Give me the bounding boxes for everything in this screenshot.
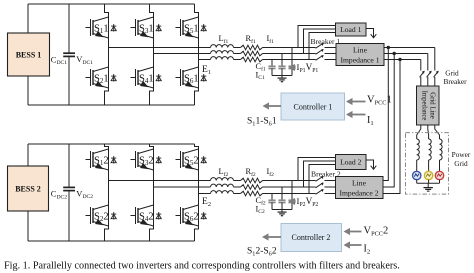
line impedance Z1 box (Line Impedance 1)	[336, 44, 384, 66]
inductor Lf2 phase c	[211, 191, 234, 194]
wire source phase c to neutral bus	[416, 180, 418, 184]
wire grid feeder phase c into grid line impedance	[420, 77, 422, 86]
wire BESS 1 negative terminal to DC- bus	[27, 76, 29, 105]
anti-parallel diode of S31	[156, 24, 161, 31]
AC source G2 phase b	[424, 171, 432, 179]
breaker 1 switch phase c	[316, 55, 324, 60]
wire grid feeder phase b vertical upper	[427, 54, 429, 71]
wire phase c tap to filter capacitor 1	[271, 194, 273, 201]
anti-parallel diode of S21	[111, 74, 116, 81]
inductor Lf2 phase a	[211, 178, 234, 181]
breaker 2 switch phase c	[316, 189, 324, 194]
signal arrow S11-S61 gate signals out of controller 1	[269, 105, 281, 107]
capacitor Cf2 unit 3	[288, 200, 295, 209]
transistor S52 (IGBT S52)	[176, 149, 199, 170]
resistor Rf1 phase a	[241, 45, 263, 50]
wire inverter 2 leg 3 (phase c) vertical	[195, 144, 199, 241]
transistor S22 (IGBT S22)	[86, 205, 109, 226]
load L2 box (Load 2)	[336, 155, 367, 170]
AC source G1 phase a	[435, 171, 443, 179]
controller U1 box (Controller 1)	[281, 93, 345, 120]
wire phase b to breaker 1	[263, 53, 316, 55]
breaker 2 switch phase b	[316, 183, 324, 188]
grid source inductor phase c	[417, 139, 420, 160]
wire phase b to breaker 2	[263, 186, 316, 188]
wire grid feeder phase a into grid line impedance	[434, 77, 436, 86]
wire load 2 tap phase b	[304, 161, 336, 187]
wire inverter 1 leg 2 (phase b) vertical	[150, 4, 154, 105]
svg-text:Impedance: Impedance	[421, 91, 428, 121]
node PCC phase a junction	[387, 46, 390, 49]
wire inverter 1 leg 1 (phase a) vertical	[105, 4, 109, 105]
wire source phase a to neutral bus	[439, 180, 441, 184]
transistor S21 (IGBT S21)	[86, 67, 109, 88]
inductor Lf1 phase c	[211, 57, 234, 60]
wire capacitor bank 1 common bus	[272, 75, 292, 77]
wire phase a to breaker 2	[263, 180, 316, 182]
power grid dashed boundary box	[406, 133, 449, 195]
wire phase c inverter 2 output to filter	[199, 193, 211, 195]
wire phase a filter middle	[234, 47, 241, 49]
transistor S12 (IGBT S12)	[86, 149, 109, 170]
inductor Lf2 phase b	[211, 184, 234, 187]
wire phase c breaker to line impedance 1	[325, 59, 337, 61]
wire capacitor bank 2 common bus	[272, 209, 292, 211]
transistor S51 (IGBT S51)	[176, 17, 199, 38]
transistor S42 (IGBT S42)	[131, 205, 154, 226]
wire phase c inverter 1 output to filter	[199, 59, 211, 61]
resistor Rf2 phase b	[241, 185, 263, 190]
breaker 1 switch phase a	[316, 43, 324, 48]
capacitor Cf1 unit 2	[278, 66, 285, 75]
current arrow IP1	[294, 67, 297, 69]
anti-parallel diode of S61	[201, 74, 206, 81]
wire phase a line impedance 1 output to PCC	[384, 47, 435, 49]
breaker 2 switch phase a	[316, 176, 324, 181]
transistor S32 (IGBT S32)	[131, 149, 154, 170]
wire coil to source phase c	[416, 160, 418, 171]
inductor Lf1 phase a	[211, 45, 234, 48]
wire DC+ bus inverter 1	[28, 3, 195, 5]
grid breaker switch phase c	[420, 71, 425, 78]
wire phase a inverter 2 output to filter	[109, 180, 211, 182]
wire inverter 2 leg 2 (phase b) vertical	[150, 144, 154, 241]
wire phase c filter middle	[234, 193, 241, 195]
wire grid feeder phase a vertical upper	[434, 48, 436, 71]
wire BESS 1 positive terminal to DC+ bus	[27, 4, 29, 33]
wire phase a inverter 1 output to filter	[109, 47, 211, 49]
svg-text:Grid: Grid	[454, 159, 468, 168]
resistor Rf1 phase c	[241, 57, 263, 62]
anti-parallel diode of S22	[111, 212, 116, 219]
controller U2 box (Controller 2)	[281, 224, 342, 252]
grid source inductor phase a	[440, 139, 443, 160]
wire phase b filter middle	[234, 186, 241, 188]
anti-parallel diode of S62	[201, 212, 206, 219]
svg-text:BESS 2: BESS 2	[15, 184, 41, 193]
capacitor Cf1 unit 3	[288, 66, 295, 75]
resistor Rf1 phase b	[241, 51, 263, 56]
wire coil to source phase b	[428, 160, 430, 171]
capacitor Cf2 unit 2	[278, 200, 285, 209]
svg-text:Impedance 2: Impedance 2	[339, 189, 378, 198]
wire phase c filter middle	[234, 59, 241, 61]
signal arrow VPCC1 into controller 1	[353, 101, 366, 103]
wire phase b filter middle	[234, 53, 241, 55]
wire phase b breaker to line impedance 1	[325, 53, 337, 55]
resistor Rf2 phase c	[241, 191, 263, 196]
wire BESS 2 negative terminal to DC- bus	[27, 211, 29, 241]
svg-text:Load 1: Load 1	[340, 25, 362, 34]
wire phase a tap to filter capacitor 3	[291, 48, 293, 67]
wire load 1 neutral drop with arrow	[366, 29, 376, 38]
capacitor CDC2 DC-link	[63, 144, 75, 241]
capacitor CDC1 DC-link	[63, 4, 75, 105]
BESS 2 battery box	[8, 166, 49, 211]
wire phase c breaker to line impedance 2	[325, 193, 337, 195]
grid line impedance Zg box (Grid Line Impedance)	[417, 86, 440, 125]
wire phase c tap to filter capacitor 1	[271, 60, 273, 67]
ground filter capacitor bank 2	[278, 210, 287, 216]
wire phase b tap to filter capacitor 2	[281, 187, 283, 200]
wire PCC phase a down to line impedance 2	[383, 48, 388, 181]
transistor S62 (IGBT S62)	[176, 205, 199, 226]
breaker 1 switch phase b	[316, 49, 324, 54]
anti-parallel diode of S12	[111, 156, 116, 163]
wire coil to source phase a	[439, 160, 441, 171]
wire phase a breaker to line impedance 1	[325, 47, 337, 49]
svg-text:Load 2: Load 2	[340, 158, 362, 167]
transistor S31 (IGBT S31)	[131, 17, 154, 38]
wire phase a to breaker 1	[263, 47, 316, 49]
label Power Grid	[452, 150, 471, 168]
signal arrow I2 into controller 2	[350, 244, 362, 246]
svg-text:S12-S62: S12-S62	[247, 247, 277, 258]
wire phase b line impedance 1 output to PCC	[384, 53, 428, 55]
signal arrow S12-S62 gate signals out of controller 2	[269, 236, 282, 238]
anti-parallel diode of S11	[111, 24, 116, 31]
wire phase a breaker to line impedance 2	[325, 180, 337, 182]
node PCC phase b junction	[393, 52, 396, 55]
wire load 1 tap phase a	[298, 26, 336, 48]
grid breaker switch phase a	[434, 71, 439, 78]
svg-text:Fig. 1. Parallelly connected t: Fig. 1. Parallelly connected two inverte…	[4, 261, 400, 272]
svg-text:Controller 2: Controller 2	[292, 233, 331, 242]
current arrow IP2	[294, 201, 297, 203]
capacitor Cf1 unit 1	[268, 66, 275, 75]
wire DC+ bus inverter 2	[28, 143, 195, 145]
line impedance Z2 box (Line Impedance 2)	[336, 177, 384, 199]
wire phase c to breaker 1	[263, 59, 316, 61]
svg-text:Grid Line: Grid Line	[429, 92, 436, 119]
anti-parallel diode of S32	[156, 156, 161, 163]
wire inverter 2 leg 1 (phase a) vertical	[105, 144, 109, 241]
grid source inductor phase b	[429, 139, 432, 160]
svg-text:S11-S61: S11-S61	[247, 117, 277, 128]
capacitor Cf2 unit 1	[268, 200, 275, 209]
wire phase b inverter 2 output to filter	[154, 186, 211, 188]
wire load 1 tap phase b	[304, 29, 336, 54]
svg-text:Impedance 1: Impedance 1	[340, 55, 379, 64]
anti-parallel diode of S41	[156, 74, 161, 81]
wire phase b inverter 1 output to filter	[154, 53, 211, 55]
anti-parallel diode of S51	[201, 24, 206, 31]
wire DC- bus inverter 1	[28, 104, 195, 106]
wire PCC phase c down to line impedance 2	[383, 60, 400, 194]
svg-text:Line: Line	[353, 45, 368, 54]
wire phase b tap to filter capacitor 2	[281, 54, 283, 67]
wire grid feeder phase b into grid line impedance	[427, 77, 429, 86]
transistor S11 (IGBT S11)	[86, 17, 109, 38]
wire phase a tap to filter capacitor 3	[291, 181, 293, 201]
wire PCC phase b down to line impedance 2	[383, 54, 394, 188]
signal arrow VPCC2 into controller 2	[350, 231, 362, 233]
ground filter capacitor bank 1	[278, 76, 287, 82]
svg-text:Breaker: Breaker	[443, 77, 467, 86]
wire phase c to breaker 2	[263, 193, 316, 195]
wire grid phase b into power grid	[427, 125, 430, 139]
wire inverter 1 leg 3 (phase c) vertical	[195, 4, 199, 105]
wire load 2 tap phase c	[309, 165, 336, 194]
svg-text:Controller 1: Controller 1	[294, 102, 333, 111]
wire grid phase c into power grid	[417, 125, 421, 139]
signal arrow I1 into controller 1	[353, 114, 366, 116]
wire load 2 tap phase a	[298, 158, 336, 181]
grid breaker switch phase b	[427, 71, 432, 78]
wire phase b breaker to line impedance 2	[325, 186, 337, 188]
ground power grid neutral	[424, 183, 433, 191]
AC source G3 phase c	[413, 171, 421, 179]
label Grid Breaker	[443, 69, 467, 87]
inductor Lf1 phase b	[211, 51, 234, 54]
svg-text:Line: Line	[352, 179, 367, 188]
wire phase c line impedance 1 output to PCC	[384, 59, 421, 61]
anti-parallel diode of S52	[201, 156, 206, 163]
node PCC phase c junction	[398, 58, 401, 61]
BESS 1 battery box	[8, 33, 50, 76]
wire load 2 neutral drop with arrow	[366, 160, 376, 169]
transistor S61 (IGBT S61)	[176, 67, 199, 88]
transistor S41 (IGBT S41)	[131, 67, 154, 88]
wire BESS 2 positive terminal to DC+ bus	[27, 144, 29, 166]
resistor Rf2 phase a	[241, 178, 263, 183]
load L1 box (Load 1)	[336, 23, 367, 36]
svg-text:BESS 1: BESS 1	[16, 50, 42, 59]
wire grid phase a into power grid	[435, 125, 440, 139]
wire DC- bus inverter 2	[28, 240, 195, 242]
svg-text:Power: Power	[452, 150, 471, 159]
anti-parallel diode of S42	[156, 212, 161, 219]
wire load 1 tap phase c	[309, 33, 336, 60]
wire source phase b to neutral bus	[428, 180, 430, 184]
wire phase a filter middle	[234, 180, 241, 182]
wire grid feeder phase c vertical upper	[420, 60, 422, 71]
wire grid neutral bus	[417, 182, 440, 184]
